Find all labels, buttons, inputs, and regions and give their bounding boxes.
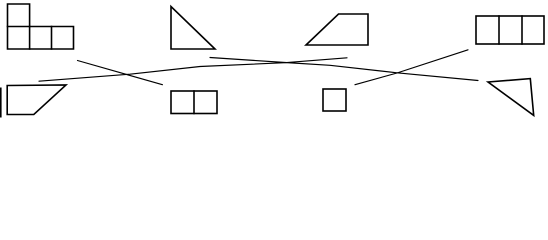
3-squares top-right xyxy=(476,16,544,44)
connector line R: square to 3-squares xyxy=(355,50,468,85)
connector line P: triangle to bottom triangle xyxy=(210,58,478,81)
triangle bottom-right xyxy=(488,79,534,116)
square bottom row xyxy=(323,89,346,111)
triangle top row xyxy=(171,7,215,50)
trapezoid top row xyxy=(306,14,368,45)
connector line B: quad to trapezoid xyxy=(39,58,347,81)
connector line A: L-shape to domino xyxy=(78,61,163,85)
domino bottom row xyxy=(171,91,217,114)
quad (right trapezoid) bottom-left xyxy=(7,85,66,115)
scan artifact left edge xyxy=(0,88,2,118)
L-shape (4 squares) top-left xyxy=(8,4,74,49)
